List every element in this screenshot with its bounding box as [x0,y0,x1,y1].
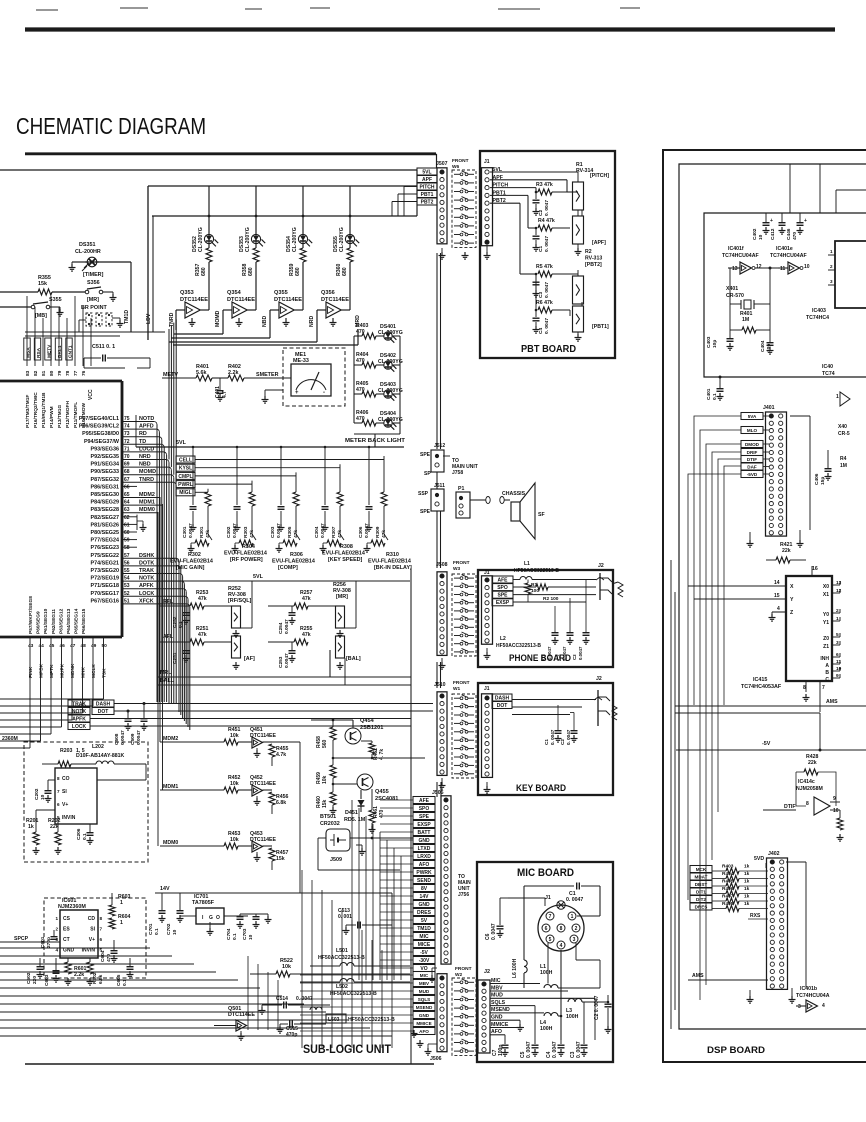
svg-text:MDM1: MDM1 [163,784,178,790]
wire AMS lines [675,705,866,707]
net label MIC bottom right [413,972,435,979]
mic pin 5 [546,935,554,943]
svg-text:CL-200YG: CL-200YG [198,227,204,252]
net label LTXD right edge [413,845,435,852]
wire DS352 anode [208,186,210,234]
ground C304 [324,524,326,528]
svg-text:LTXD: LTXD [418,846,431,852]
svg-text:C301: C301 [182,526,188,538]
svg-text:46: 46 [60,643,66,649]
svg-text:BATT: BATT [418,830,431,836]
net label GND right edge [413,901,435,908]
svg-text:J758: J758 [452,470,463,476]
speaker SP [511,502,520,521]
net label MSEND bottom right [413,1004,435,1011]
pot R254 [AF] [232,636,241,658]
net label 5V right edge [413,917,435,924]
ground bottom left rail [419,1040,421,1044]
wire 14V rail [155,892,392,894]
svg-text:MDNK: MDNK [70,663,76,678]
ground J508 [441,662,443,666]
svg-text:5VL: 5VL [253,574,264,580]
svg-text:TC74HCU04A: TC74HCU04A [796,993,830,999]
svg-text:FRONT: FRONT [452,158,469,164]
trimmer R309 wiper element [371,540,385,546]
svg-text:47k: 47k [198,632,207,638]
svg-text:61: 61 [124,522,130,528]
ground BR POINT [112,317,120,319]
svg-text:NRD: NRD [309,316,315,327]
svg-text:IC403: IC403 [812,308,826,314]
LED DS352 [204,234,213,243]
net label RSA vertical [34,338,40,360]
net label APFK [68,715,90,722]
svg-text:R2 100: R2 100 [543,596,559,602]
mic pin 2 [572,924,580,932]
svg-text:V+: V+ [62,802,68,808]
svg-text:AMS: AMS [692,973,704,979]
net label DBST [690,881,712,888]
pot [BAL] [336,636,345,658]
svg-text:6.8k: 6.8k [276,800,286,806]
ground C3 [535,290,537,294]
svg-text:MDM2: MDM2 [163,736,178,742]
svg-text:J508: J508 [436,562,448,568]
svg-text:9: 9 [836,673,839,679]
svg-text:MLO: MLO [747,428,758,433]
svg-text:0. 0047: 0. 0047 [576,1041,582,1058]
svg-text:470: 470 [106,954,112,962]
svg-text:MIC BOARD: MIC BOARD [517,867,574,879]
svg-text:C404: C404 [760,340,766,352]
LED DS353 [251,234,260,243]
svg-text:13: 13 [836,580,842,586]
svg-text:1M: 1M [840,463,847,469]
svg-text:14V: 14V [160,886,170,892]
net label DRES right edge [413,909,435,916]
svg-text:Y: Y [790,597,794,603]
svg-text:48: 48 [81,643,87,649]
svg-text:C202: C202 [34,788,40,800]
net label 5VA dsp [741,413,763,420]
dsp inner outline [679,164,866,1029]
net label AFE phone [492,576,513,583]
svg-text:14V: 14V [420,894,430,900]
svg-text:P82/SEG27: P82/SEG27 [91,515,119,521]
wire LDV riser [152,216,154,332]
wire bus bottom risers [301,870,303,1048]
net label -30V right edge [413,957,435,964]
ground S356 [103,291,113,293]
svg-text:P86/SEG31: P86/SEG31 [91,484,119,490]
svg-text:0.0047: 0.0047 [120,730,126,745]
svg-text:L6 100H: L6 100H [512,958,518,978]
svg-text:P92/SEG35: P92/SEG35 [91,454,119,460]
svg-text:C702: C702 [166,923,172,935]
svg-text:C303: C303 [270,526,276,538]
svg-text:P85/SEG30: P85/SEG30 [91,492,119,498]
wire mic top loop [599,886,601,916]
ground IC415 pin8 [805,694,807,698]
ground C401 [219,394,221,398]
svg-text:4: 4 [777,606,780,612]
rule under title [25,152,436,155]
svg-text:P72/SEG19: P72/SEG19 [91,576,119,582]
svg-text:SP: SP [424,471,431,477]
wire LED box right edge [416,170,418,216]
svg-text:1: 1 [836,394,839,400]
net label DAF dsp [741,463,763,470]
inverter IC401b [806,1000,817,1012]
svg-text:J505: J505 [432,790,444,796]
svg-text:J511: J511 [434,483,445,489]
svg-text:470: 470 [379,809,385,818]
svg-text:0. 001: 0. 001 [338,914,352,920]
svg-text:O: O [216,915,220,921]
svg-text:P62/SEG11: P62/SEG11 [51,609,57,634]
svg-text:1k: 1k [744,886,750,892]
svg-text:R309: R309 [375,526,381,538]
net label AFE right edge [413,797,435,804]
svg-text:ES: ES [63,927,70,933]
svg-text:13: 13 [732,266,738,272]
net label MIC right edge [413,933,435,940]
svg-text:C402: C402 [752,228,758,240]
svg-text:C403: C403 [706,336,712,348]
switch bank W2 [452,978,476,1055]
svg-text:W1: W1 [453,686,461,692]
svg-text:MRL: MRL [160,670,172,676]
svg-text:CR-570: CR-570 [726,293,744,299]
svg-text:8: 8 [57,776,60,781]
ground mic gnd row [519,1024,521,1028]
net label -5V right edge [413,949,435,956]
svg-text:45: 45 [49,643,55,649]
svg-text:50: 50 [102,643,108,649]
svg-text:Z0: Z0 [823,636,829,642]
ground J401 left [749,540,751,544]
svg-text:C254: C254 [278,622,284,634]
wire spe row [513,594,596,596]
svg-text:SPO: SPO [497,585,508,591]
svg-text:7: 7 [100,927,103,932]
ground IC415 Z [771,614,773,618]
svg-text:5: 5 [836,632,839,638]
svg-text:J2: J2 [598,563,604,569]
net label MUD bottom right [413,988,435,995]
wire TM1D riser [130,262,132,332]
svg-text:7: 7 [57,789,60,794]
svg-text:D10F-AB14AY-881K: D10F-AB14AY-881K [76,753,124,759]
inductor L503 HF50ACC322513-B [326,1014,346,1023]
svg-text:L1: L1 [524,561,530,567]
net label VO right edge [413,965,435,972]
svg-text:2360M: 2360M [2,736,18,742]
ground Q501 [240,1033,242,1037]
ground J1 phone [486,652,488,656]
svg-text:0.1: 0.1 [154,928,160,935]
svg-text:TA7805F: TA7805F [192,900,215,906]
ground L503 [413,1030,415,1034]
svg-text:15: 15 [774,593,780,599]
net label MIGL [176,489,195,496]
svg-text:P15/IRQ1/TM1B: P15/IRQ1/TM1B [41,392,47,428]
svg-text:P61/SEG10: P61/SEG10 [43,608,49,634]
svg-text:NBD: NBD [262,316,268,327]
svg-text:R310: R310 [386,552,399,558]
svg-text:SPE: SPE [419,814,430,820]
svg-text:PBT2: PBT2 [421,199,434,205]
net label PBT1 [417,191,437,198]
wire P1 to speaker [470,499,486,501]
net label PWRK right edge [413,869,435,876]
svg-text:NJM2058M: NJM2058M [796,786,823,792]
svg-text:SQLS: SQLS [418,997,431,1002]
ground Q355 [285,319,287,323]
svg-text:2: 2 [830,264,833,269]
wire trimmer 1 feed [195,491,208,493]
svg-text:15k: 15k [322,799,328,808]
svg-text:TC74HC4053AF: TC74HC4053AF [741,684,782,690]
svg-text:DASH: DASH [96,701,111,707]
ground Q452 [256,798,258,802]
svg-text:C508: C508 [114,733,120,745]
net label MSA vertical [24,338,30,360]
svg-text:P66/SEG15: P66/SEG15 [81,608,87,634]
ground IC701 [209,922,211,928]
svg-text:C2: C2 [538,210,544,216]
svg-text:22k: 22k [50,824,59,830]
net label GND bottom right [413,1012,435,1019]
trimmer R301 wiper element [195,540,209,546]
svg-text:MUPK: MUPK [60,663,66,678]
svg-text:CL-200YG: CL-200YG [339,227,345,252]
wire 5VL mid rail [163,580,410,582]
mic pin 6 [542,924,550,932]
net label NOTK [68,708,90,715]
ground R461 [371,826,373,830]
wire chain rail A [436,253,438,449]
svg-text:1M: 1M [742,317,749,323]
svg-text:BR POINT: BR POINT [81,305,107,311]
ground C4 [535,326,537,330]
svg-text:EVU-FLAE02B14: EVU-FLAE02B14 [368,559,411,565]
wire mic row links [558,987,600,989]
switch bank W6 [452,170,476,247]
net METV wire [162,377,196,379]
svg-text:R305: R305 [287,526,293,538]
svg-text:CR-5: CR-5 [838,431,850,437]
ground C302 [236,524,238,528]
svg-text:IC401e: IC401e [776,246,793,252]
wire dcdc output [97,779,146,781]
sub-logic unit bottom border [25,1063,434,1065]
svg-text:FINK: FINK [28,666,34,678]
svg-text:SPE: SPE [497,593,508,599]
svg-text:60: 60 [124,530,130,536]
connector J506 [437,974,447,1052]
net label DASH key [492,694,512,701]
svg-text:5: 5 [549,937,552,943]
svg-text:J402: J402 [768,851,780,857]
svg-text:10: 10 [40,794,46,800]
svg-text:CO: CO [62,776,70,782]
svg-text:MCK: MCK [696,867,707,872]
net label 8V right edge [413,885,435,892]
svg-text:3: 3 [798,1004,801,1010]
svg-text:TRAK: TRAK [72,701,86,707]
svg-text:P90/SEG33: P90/SEG33 [91,469,119,475]
svg-text:P76/SEG23: P76/SEG23 [91,545,119,551]
svg-text:6.8k: 6.8k [98,974,104,984]
net label MMICE bottom right [413,1020,435,1027]
wire bus bottom risers left [247,956,249,1030]
net label SEND right edge [413,877,435,884]
net label DRIF dsp [741,449,763,456]
svg-text:7: 7 [822,685,825,691]
svg-text:PWRL: PWRL [178,482,193,488]
svg-text:J509: J509 [330,857,342,863]
svg-text:X40: X40 [838,424,847,430]
net label DTIF dsp [741,456,763,463]
svg-text:C509: C509 [130,733,136,745]
svg-text:[MIC GAIN]: [MIC GAIN] [176,565,205,571]
svg-text:MUD: MUD [419,989,430,994]
svg-text:Q354: Q354 [227,290,242,296]
svg-text:DTC114EE: DTC114EE [228,1012,255,1018]
svg-text:CR2032: CR2032 [320,821,340,827]
wire LED box left [147,186,149,340]
svg-text:5VA: 5VA [748,414,757,419]
svg-text:0.1: 0.1 [178,621,184,628]
svg-text:P81/SEG26: P81/SEG26 [91,522,119,528]
wire LDV rail [152,215,417,217]
svg-text:62: 62 [124,515,130,521]
svg-text:DASH: DASH [495,695,510,701]
svg-text:DIT1: DIT1 [696,889,706,894]
mic pin 7 [546,912,554,920]
svg-text:LRXD: LRXD [417,854,431,860]
svg-text:NJM2360M: NJM2360M [58,904,86,910]
svg-text:LOCK: LOCK [72,724,87,730]
svg-text:R4: R4 [840,456,847,462]
wire Q455 base row [333,783,357,785]
svg-text:W3: W3 [453,566,461,572]
svg-text:MSEND: MSEND [491,1007,510,1013]
svg-text:IC401b: IC401b [800,986,817,992]
svg-text:10k: 10k [282,964,291,970]
svg-text:AMS: AMS [826,699,838,705]
svg-text:J1: J1 [545,895,551,901]
svg-text:P80/SEG25: P80/SEG25 [91,530,119,536]
svg-text:D451: D451 [345,810,358,816]
svg-text:4: 4 [560,943,563,949]
svg-text:12: 12 [836,588,842,594]
svg-text:Q454: Q454 [360,718,375,724]
svg-text:C304: C304 [314,526,320,538]
svg-text:9: 9 [833,796,836,802]
svg-text:RXS: RXS [750,913,761,919]
svg-text:P14/PWM: P14/PWM [49,406,55,428]
svg-text:0.0047: 0.0047 [136,730,142,745]
svg-text:DBST: DBST [695,882,708,887]
svg-text:R306: R306 [290,552,303,558]
wire battery out [350,837,372,839]
svg-text:P13/TM1G: P13/TM1G [57,405,63,428]
svg-text:C206: C206 [76,828,82,840]
phone board outline [478,570,613,667]
dc-dc IC601 dashed box [44,898,146,978]
wire dsp top right stubs [835,190,837,213]
svg-text:C703: C703 [242,928,248,940]
ground C515 [279,1026,281,1030]
svg-text:DIT2: DIT2 [696,897,706,902]
wire key board interconnect [570,712,574,714]
svg-text:P84/SEG29: P84/SEG29 [91,500,119,506]
wire to meter [290,377,291,379]
svg-text:1: 1 [830,249,833,254]
svg-text:J1: J1 [484,159,490,165]
ground Q354 [238,319,240,323]
svg-text:TC74HCU04AF: TC74HCU04AF [722,253,759,259]
svg-text:FRONT: FRONT [453,560,470,566]
svg-text:1k: 1k [744,864,750,870]
svg-text:AFL: AFL [163,634,174,640]
svg-text:P83/SEG28: P83/SEG28 [91,507,119,513]
resistor R360 680 [347,248,353,262]
svg-text:[RF/SQL]: [RF/SQL] [228,598,252,604]
svg-text:C1: C1 [538,246,544,252]
mic pin 3 [570,935,578,943]
svg-text:0. 0047: 0. 0047 [544,282,550,298]
svg-text:P70/SEG17: P70/SEG17 [91,591,119,597]
IC403 package box [835,241,866,308]
wire LED box top [148,185,417,187]
ground Q353 [191,319,193,323]
svg-text:MIGL: MIGL [179,490,192,496]
net label BKL1 vertical [55,338,61,360]
svg-text:AFO: AFO [491,1029,502,1035]
svg-text:3: 3 [573,937,576,943]
svg-text:C: C [825,677,829,683]
svg-text:0. 0047: 0. 0047 [552,1041,558,1058]
trimmer R303 wiper element [239,540,253,546]
svg-text:-5VD: -5VD [747,472,758,477]
net label MBV bottom right [413,980,435,987]
wire DS353 anode [255,186,257,234]
switch bank BR POINT [86,313,92,326]
svg-text:49: 49 [91,643,97,649]
net label METV vertical [45,338,51,360]
svg-text:0. 0047: 0. 0047 [550,729,555,745]
wire bus upper ports [26,296,28,366]
wire Q356 input [317,309,326,311]
svg-text:DTIF: DTIF [747,457,757,462]
mic pin 4 [557,941,565,949]
ground J1 PBT [486,252,488,256]
svg-text:GND: GND [491,1015,503,1021]
svg-text:C401: C401 [706,388,712,400]
svg-text:G: G [209,915,213,921]
svg-text:DOT: DOT [497,703,508,709]
svg-text:R4 47k: R4 47k [538,218,555,224]
svg-text:560: 560 [322,739,328,748]
svg-text:CD: CD [88,916,96,922]
ground trimmer 4 [322,545,324,549]
svg-text:15p: 15p [820,477,826,485]
svg-text:C511 0. 1: C511 0. 1 [92,344,115,350]
svg-text:0. 0047: 0. 0047 [544,236,550,252]
